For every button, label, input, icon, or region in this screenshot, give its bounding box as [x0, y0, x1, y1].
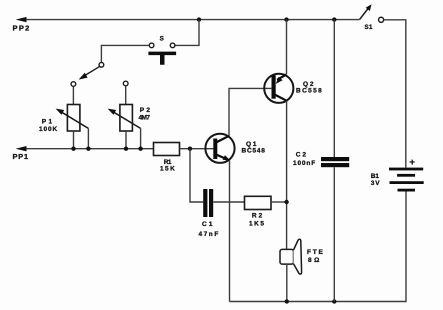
- node dot R1 / C1 branch: [188, 147, 192, 151]
- battery B1 plate 2 (short): [397, 174, 415, 177]
- transistor Q1 BC548: [205, 134, 234, 163]
- svg-text:S: S: [160, 35, 164, 42]
- terminal PP2 arrow: [16, 17, 27, 22]
- wire C1 branch (from R1 node down and right): [190, 149, 203, 202]
- wire Q1 collector up to Q2 base: [229, 88, 271, 135]
- P1 top contact: [71, 82, 76, 87]
- svg-text:4M7: 4M7: [139, 115, 151, 122]
- svg-text:8Ω: 8Ω: [308, 257, 319, 264]
- wire C2 riser top: [333, 20, 335, 158]
- capacitor C2 bottom plate: [321, 163, 349, 167]
- switch S1 contact: [379, 17, 384, 22]
- node dot bottom rail / C2: [332, 299, 336, 303]
- svg-text:BC548: BC548: [242, 148, 266, 155]
- speaker FTE: [280, 239, 302, 274]
- pushbutton S left contact: [149, 43, 154, 48]
- potentiometer P1 wiper arrow: [60, 111, 88, 128]
- node dot P1 bottom: [71, 147, 75, 151]
- svg-text:100K: 100K: [39, 126, 57, 133]
- battery B1 plate 4 (short): [398, 189, 416, 192]
- svg-text:15K: 15K: [160, 166, 175, 173]
- resistor R2: [245, 196, 272, 209]
- svg-text:47nF: 47nF: [199, 231, 219, 238]
- wire P1 wiper down: [87, 128, 89, 148]
- wire R1 to Q1 base: [180, 148, 214, 150]
- node dot P2 bottom: [124, 147, 128, 151]
- wire S riser: [175, 20, 199, 46]
- transistor Q2 BC558: [264, 74, 293, 103]
- resistor R1: [154, 143, 180, 156]
- battery B1 plate 1 (long +): [389, 168, 423, 171]
- wire speaker to bottom rail: [286, 264, 288, 301]
- svg-text:+: +: [409, 157, 415, 168]
- potentiometer P1 body: [67, 105, 80, 132]
- svg-text:S1: S1: [365, 24, 374, 31]
- wire P1 top lead: [72, 86, 74, 104]
- capacitor C1 right plate: [209, 189, 213, 217]
- svg-text:1K5: 1K5: [249, 220, 264, 227]
- wire bottom rail: [230, 192, 407, 302]
- capacitor C1 left plate: [203, 189, 207, 217]
- node dot top rail / Q2 emitter riser: [284, 17, 288, 21]
- potentiometer P2 wiper arrow: [112, 111, 141, 128]
- selector arm (wiper): [82, 67, 100, 78]
- svg-text:PP1: PP1: [13, 152, 29, 161]
- battery B1 plate 3 (long): [390, 181, 424, 184]
- svg-text:100nF: 100nF: [293, 160, 315, 167]
- wire Q1 emitter down to bottom rail: [229, 161, 231, 302]
- wire Q2 collector down: [286, 101, 288, 250]
- wire C2 riser bottom: [333, 167, 335, 301]
- wire P2 wiper down: [140, 128, 142, 148]
- node dot top rail / C2 riser: [332, 17, 336, 21]
- svg-text:PP2: PP2: [13, 24, 30, 33]
- capacitor C2 top plate: [321, 157, 349, 161]
- wire S1 to battery: [384, 20, 406, 168]
- svg-text:3V: 3V: [371, 180, 380, 187]
- selector pivot contact: [99, 62, 104, 67]
- P2 top contact: [123, 81, 128, 86]
- wire P2 bottom lead: [125, 131, 127, 149]
- svg-text:BC558: BC558: [296, 88, 322, 95]
- wire mid rail PP1: [24, 148, 154, 150]
- node dot R2 / Q2 collector: [284, 200, 288, 204]
- wire P1 bottom lead: [73, 131, 75, 149]
- wire R2 to Q2 collector line: [271, 201, 287, 203]
- wire top rail: [24, 19, 360, 21]
- node dot top rail / S riser: [197, 17, 201, 21]
- wire Q2 emitter up to top rail: [286, 20, 288, 75]
- switch S1 blade: [360, 8, 369, 20]
- wire P2 top lead: [125, 86, 127, 105]
- node dot bottom rail / speaker: [285, 299, 289, 303]
- terminal PP1 arrow: [16, 146, 27, 151]
- pushbutton S right contact: [170, 43, 175, 48]
- wire S left to selector pivot: [101, 45, 149, 62]
- pushbutton S actuator bar: [148, 52, 176, 65]
- node dot P2 wiper: [138, 147, 142, 151]
- wire C1 to R2: [213, 201, 244, 203]
- potentiometer P2 body: [120, 105, 132, 132]
- svg-text:FTE: FTE: [307, 249, 324, 256]
- node dot P1 wiper: [86, 147, 90, 151]
